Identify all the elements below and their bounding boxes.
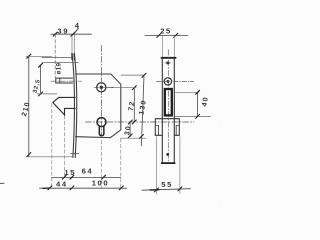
dim line 15/64 [52, 177, 121, 179]
plate outline front [162, 57, 176, 59]
dim 32,5 line [40, 65, 42, 94]
dim 25 line [145, 34, 188, 36]
label 4 leader [74, 28, 79, 34]
ext case right down [120, 139, 122, 189]
dim 72 line [133, 88, 135, 122]
ext dashed 39 [54, 35, 56, 78]
euro profile keyhole [97, 118, 106, 127]
dim 55 [155, 137, 157, 195]
circle centerline horizontal [94, 86, 114, 88]
faceplate (edge view, left drawing) [72, 54, 75, 158]
screw hole top [166, 61, 169, 64]
plate vertical centerline [167, 50, 169, 161]
circle centerline right view [157, 80, 194, 82]
tick 39 right [71, 32, 75, 36]
follower circle C1 [97, 83, 106, 92]
dim 40 [176, 91, 199, 93]
dim 130 line [141, 75, 144, 146]
ext case top right [121, 74, 145, 76]
ext 32,5 top [42, 62, 79, 64]
main horizontal centerline [86, 121, 195, 123]
ext circle center right [106, 87, 137, 89]
ext 32,5 bottom [37, 93, 57, 95]
ext case bottom right [121, 137, 147, 139]
tick 39 left [53, 32, 57, 36]
cylinder vertical centerline [100, 46, 102, 137]
pin o19 [56, 78, 73, 83]
stray mark left edge [0, 182, 4, 184]
faceplate screw mark bottom [71, 152, 79, 154]
ext dashed hook corner down [51, 104, 53, 188]
plate circle [164, 78, 171, 85]
dim 39 line [51, 33, 92, 35]
dim line 44/100 [40, 187, 127, 189]
screw hole bottom [166, 153, 169, 156]
pin centerline [51, 80, 82, 82]
ext 210 bottom [26, 156, 73, 158]
dim 30 line [129, 122, 131, 137]
faceplate top dark cap [71, 54, 73, 60]
hook bolt [53, 97, 75, 115]
ext dashed cylinder down [101, 141, 103, 188]
lock case outline [76, 74, 121, 138]
ext dashed hook tip down [63, 116, 65, 178]
ext 210 top [26, 55, 52, 57]
mounting block [155, 119, 179, 136]
ext 25 verticals [161, 36, 163, 57]
ext plate top [42, 57, 72, 59]
faceplate extension lines to dim 39 [71, 35, 73, 56]
hook slot (thick walls) [165, 89, 172, 115]
dim 210 line [28, 56, 30, 157]
